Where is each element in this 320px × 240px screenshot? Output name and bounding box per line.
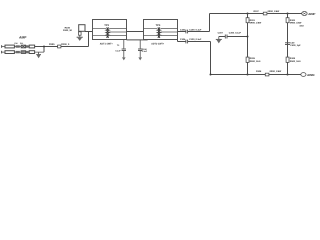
junction dot bottom right — [287, 74, 289, 76]
svg-text:0R00_1/8W: 0R00_1/8W — [268, 10, 280, 13]
svg-text:C100_0.1uF: C100_0.1uF — [189, 28, 202, 31]
svg-text:R306: R306 — [290, 57, 296, 60]
terminal AINP — [302, 12, 307, 16]
svg-text:C104: C104 — [180, 38, 186, 41]
component box U2 — [79, 25, 85, 32]
connector pin P10 box — [21, 45, 25, 48]
svg-text:AMP: AMP — [18, 36, 27, 40]
wire left shunt vertical — [247, 14, 249, 75]
svg-text:C100_0.1uF: C100_0.1uF — [189, 38, 202, 41]
terminal AINN — [301, 73, 306, 77]
transformer TP3 box — [93, 20, 127, 40]
capacitor C102 body — [5, 51, 14, 54]
svg-text:0R00_1/8W: 0R00_1/8W — [270, 70, 282, 73]
resistor R306 body — [286, 57, 289, 62]
svg-text:R100_50: R100_50 — [63, 29, 73, 32]
capacitor C105 to ground — [122, 40, 126, 58]
capacitor C106 to ground — [138, 40, 142, 58]
svg-text:C103: C103 — [180, 28, 186, 31]
inductor L2 body — [29, 51, 34, 54]
svg-text:0R00_1/8W: 0R00_1/8W — [250, 21, 262, 24]
svg-text:T3: T3 — [117, 44, 120, 47]
resistor R105 body — [58, 45, 61, 48]
capacitor C401 plates — [285, 43, 290, 45]
resistor R305 body — [246, 57, 249, 62]
svg-text:AINN: AINN — [307, 73, 314, 77]
transformer TP3 pin stubs — [93, 29, 127, 36]
svg-text:0.1uF: 0.1uF — [142, 50, 148, 53]
wire top rail — [210, 13, 302, 15]
junction dot bottom corner — [210, 74, 212, 76]
inductor L1 body — [29, 45, 34, 48]
transformer TP3 coils — [106, 28, 108, 38]
wire row1 — [2, 46, 35, 48]
wire riser to bottom rail — [210, 42, 212, 75]
resistor R107 body — [263, 12, 267, 15]
resistor R102 — [16, 51, 20, 53]
svg-text:0R00_1/8W: 0R00_1/8W — [290, 21, 302, 24]
wire row1 input stub — [1, 45, 3, 48]
svg-text:C307: C307 — [218, 31, 224, 34]
transformer TP4 pin stubs — [144, 29, 178, 36]
wire TP4 upper output — [178, 31, 210, 33]
svg-text:R500_16.9: R500_16.9 — [290, 60, 301, 63]
wire row2 — [2, 51, 44, 53]
svg-text:C40: C40 — [290, 42, 295, 45]
connector pin P11 box — [21, 51, 25, 54]
svg-text:R301: R301 — [250, 19, 256, 22]
wire row2 riser — [43, 47, 45, 53]
ground G1 — [77, 37, 83, 41]
svg-text:P11: P11 — [20, 42, 23, 45]
wire TP3 input — [85, 31, 93, 33]
svg-text:R500_16.9: R500_16.9 — [250, 60, 261, 63]
resistor R106 body — [79, 31, 82, 37]
wire row2 input stub — [1, 51, 3, 54]
resistor R101 — [16, 45, 20, 47]
capacitor C307 branch wire — [219, 36, 248, 38]
wire riser to TP3 — [88, 32, 90, 47]
wire TP4 lower output — [178, 36, 211, 42]
junction dot — [43, 46, 45, 48]
svg-text:R305: R305 — [250, 57, 256, 60]
ground G0 — [36, 52, 41, 58]
ground G4 — [216, 37, 222, 44]
junction dot bottom left — [247, 74, 249, 76]
transformer TP4 box — [144, 20, 178, 40]
svg-text:R105: R105 — [49, 43, 55, 46]
capacitor C101 body — [5, 45, 14, 48]
svg-text:P10: P10 — [14, 42, 17, 45]
junction dot top left — [247, 13, 249, 15]
svg-text:R106: R106 — [65, 27, 71, 30]
capacitor C307 plates — [225, 35, 227, 39]
ground G3 arrow — [138, 57, 142, 60]
svg-text:ADT1-1WT+: ADT1-1WT+ — [100, 42, 114, 45]
svg-text:0.1uF: 0.1uF — [115, 49, 121, 52]
svg-text:TP3: TP3 — [104, 24, 109, 27]
capacitor C104 plates — [186, 40, 188, 44]
resistor R103 — [26, 45, 29, 47]
wire bottom rail — [211, 74, 302, 76]
transformer TP4 coils — [158, 28, 160, 38]
svg-text:16.9: 16.9 — [299, 24, 304, 27]
junction dot top right — [287, 13, 289, 15]
wire TP3 to TP4 — [127, 31, 144, 33]
ground G2 arrow — [122, 57, 126, 60]
svg-text:R302: R302 — [290, 19, 296, 22]
resistor R301 body — [246, 18, 249, 23]
svg-text:C300_0.1uF: C300_0.1uF — [229, 31, 242, 34]
resistor R104 — [26, 51, 29, 53]
svg-text:AINP: AINP — [308, 12, 315, 16]
junction dot C307 — [247, 36, 249, 38]
svg-text:R107: R107 — [254, 10, 260, 13]
wire riser to top rail — [209, 14, 211, 32]
wire center tap bus — [127, 39, 148, 41]
svg-text:R100_0: R100_0 — [61, 43, 70, 46]
wire right shunt vertical — [287, 14, 289, 75]
wire main input — [35, 46, 89, 48]
svg-text:TP4: TP4 — [156, 24, 161, 27]
svg-text:R108: R108 — [256, 70, 262, 73]
svg-text:C400_3pF: C400_3pF — [290, 44, 301, 47]
capacitor C103 plates — [186, 30, 188, 34]
resistor R302 body — [286, 18, 289, 23]
resistor R108 body — [265, 73, 269, 76]
svg-text:ADT1-1WT+: ADT1-1WT+ — [151, 43, 165, 46]
